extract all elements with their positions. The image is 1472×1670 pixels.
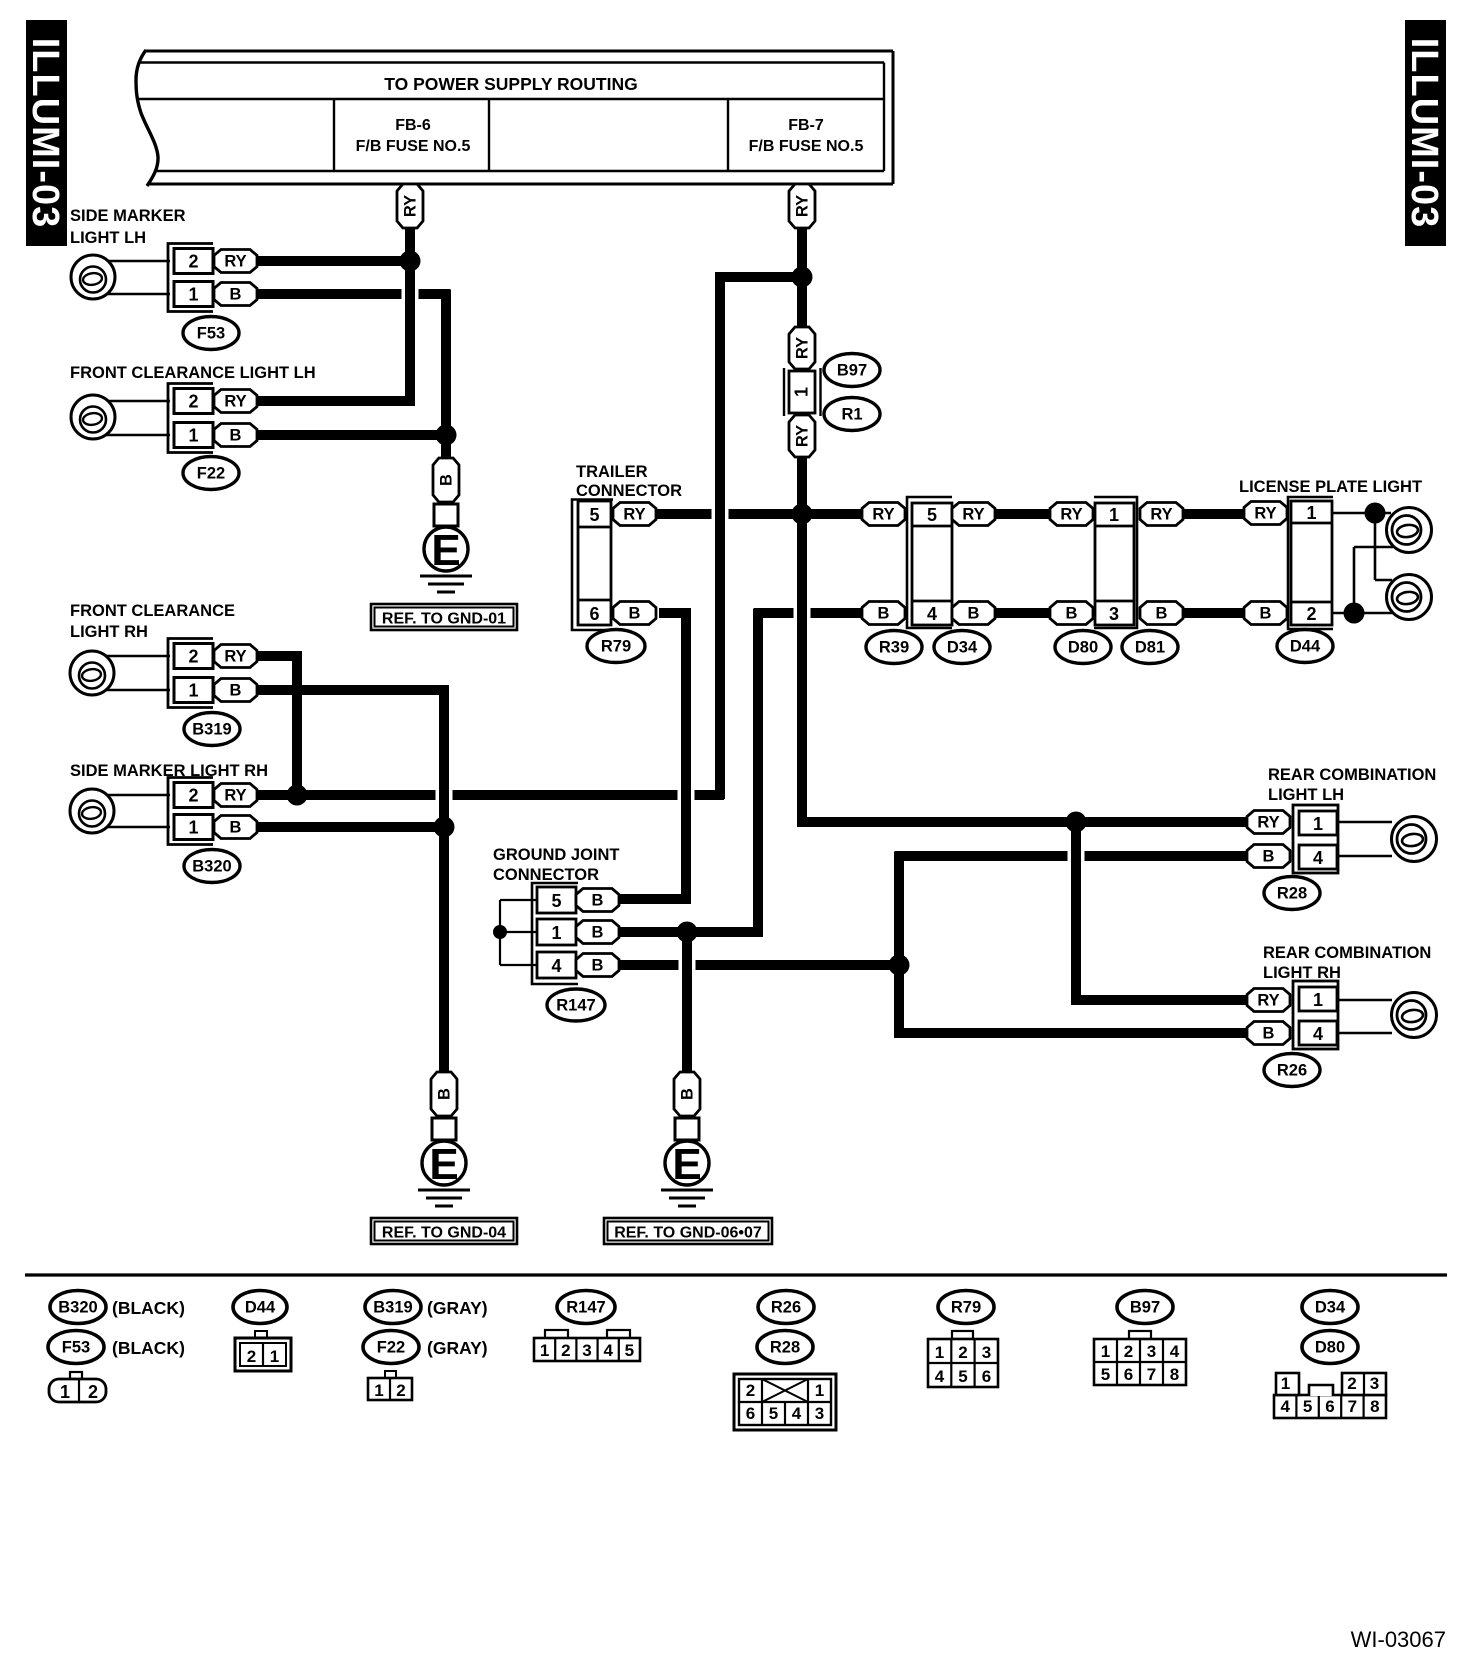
svg-text:6: 6: [1124, 1365, 1133, 1384]
svg-text:D80: D80: [1315, 1339, 1345, 1357]
svg-text:2: 2: [88, 1382, 98, 1402]
svg-text:2: 2: [1347, 1374, 1356, 1393]
svg-text:8: 8: [1170, 1365, 1179, 1384]
wire R28 RY to R26 RY vertical: [1076, 822, 1250, 1000]
svg-text:FB-7: FB-7: [788, 117, 824, 134]
wire B319 RY: [255, 656, 297, 799]
svg-text:4: 4: [792, 1404, 802, 1423]
connector R39/D34: [907, 497, 952, 628]
svg-text:2: 2: [188, 647, 198, 667]
legend D44: [233, 1291, 287, 1324]
svg-text:B: B: [679, 1088, 697, 1100]
svg-text:D34: D34: [947, 639, 978, 657]
legend F22: [363, 1331, 419, 1364]
svg-text:R147: R147: [556, 997, 595, 1015]
legend R28: [757, 1331, 813, 1364]
svg-text:FRONT CLEARANCE: FRONT CLEARANCE: [70, 602, 235, 620]
svg-text:LIGHT LH: LIGHT LH: [70, 229, 146, 247]
svg-text:B: B: [629, 605, 641, 623]
svg-text:RY: RY: [1060, 506, 1082, 524]
left banner ILLUMI-03: [26, 20, 67, 246]
svg-text:1: 1: [540, 1341, 549, 1360]
D44 internal wiring: [1332, 512, 1391, 515]
svg-text:R1: R1: [841, 406, 862, 424]
wire chain B segment (y613): [754, 608, 864, 618]
junction D44 pin2 node: [1344, 603, 1365, 624]
legend B320: [50, 1291, 106, 1324]
svg-text:1: 1: [60, 1382, 70, 1402]
svg-text:8: 8: [1370, 1397, 1379, 1416]
ellipse R147: [547, 989, 605, 1021]
svg-text:1: 1: [374, 1381, 383, 1400]
svg-text:F53: F53: [62, 1339, 90, 1357]
svg-text:4: 4: [1170, 1342, 1180, 1361]
legend D44 pin face: [255, 1331, 267, 1339]
ellipse R1: [824, 398, 880, 431]
svg-text:F22: F22: [377, 1339, 405, 1357]
svg-text:RY: RY: [224, 253, 246, 271]
svg-text:REAR COMBINATION: REAR COMBINATION: [1263, 944, 1431, 962]
legend R26/R28 pin face: [734, 1374, 836, 1430]
svg-text:RY: RY: [794, 337, 812, 359]
svg-text:B320: B320: [58, 1299, 97, 1317]
svg-text:E: E: [672, 1140, 701, 1189]
svg-text:7: 7: [1348, 1397, 1357, 1416]
legend F53/B320 pin face: [70, 1372, 82, 1379]
connector R28: [1293, 805, 1338, 873]
svg-text:REAR COMBINATION: REAR COMBINATION: [1268, 766, 1436, 784]
svg-text:F/B FUSE NO.5: F/B FUSE NO.5: [356, 138, 471, 155]
svg-text:B319: B319: [373, 1299, 412, 1317]
svg-text:1: 1: [1281, 1374, 1290, 1393]
wire crossing gaps (no connection): [402, 288, 419, 300]
legend B319: [365, 1291, 421, 1324]
wire trailer RY bus (y514): [655, 509, 864, 519]
legend D34: [1302, 1291, 1358, 1324]
svg-text:FB-6: FB-6: [395, 117, 431, 134]
svg-text:6: 6: [746, 1404, 755, 1423]
ellipse B319: [184, 713, 240, 746]
svg-text:(GRAY): (GRAY): [427, 1298, 488, 1318]
svg-text:7: 7: [1147, 1365, 1156, 1384]
svg-text:LIGHT RH: LIGHT RH: [70, 623, 148, 641]
svg-text:1: 1: [1306, 503, 1316, 523]
svg-text:2: 2: [396, 1381, 405, 1400]
svg-text:4: 4: [1280, 1397, 1290, 1416]
RY tag below FB-6: [397, 184, 423, 228]
svg-text:1: 1: [188, 818, 198, 838]
legend D34/D80 pin face: [1274, 1395, 1386, 1418]
wire B319 B + vertical to GND-04: [255, 690, 444, 1074]
svg-text:B97: B97: [1130, 1299, 1160, 1317]
connector B320: [168, 778, 213, 845]
svg-text:REF. TO GND-01: REF. TO GND-01: [382, 611, 506, 628]
legend R147: [557, 1291, 615, 1324]
svg-text:WI-03067: WI-03067: [1351, 1627, 1446, 1652]
svg-text:GROUND JOINT: GROUND JOINT: [493, 846, 620, 864]
svg-text:3: 3: [582, 1341, 591, 1360]
svg-text:R28: R28: [770, 1339, 800, 1357]
svg-text:CONNECTOR: CONNECTOR: [576, 482, 682, 500]
bulb R26: [1392, 993, 1437, 1038]
svg-text:5: 5: [927, 505, 937, 525]
svg-text:3: 3: [815, 1404, 824, 1423]
RY tag below FB-7: [789, 184, 815, 228]
svg-text:B: B: [592, 957, 604, 975]
junction R28 RY / R26 RY feed: [1066, 812, 1087, 833]
junction FB-7 feed / trunk: [792, 267, 813, 288]
svg-text:R28: R28: [1277, 885, 1307, 903]
legend F53: [48, 1331, 104, 1364]
svg-text:R147: R147: [566, 1299, 605, 1317]
right banner ILLUMI-03: [1405, 20, 1446, 246]
svg-text:F53: F53: [197, 325, 225, 343]
bulb B319: [104, 655, 170, 658]
svg-text:F/B FUSE NO.5: F/B FUSE NO.5: [749, 138, 864, 155]
power supply routing box: [136, 50, 158, 186]
svg-text:2: 2: [188, 786, 198, 806]
svg-text:3: 3: [1370, 1374, 1379, 1393]
junction B319 RY / B320 RY: [287, 785, 308, 806]
junction F22 B / GND-01 drop: [436, 425, 457, 446]
svg-text:B: B: [230, 682, 242, 700]
svg-text:2: 2: [958, 1343, 967, 1362]
ellipse D34: [934, 631, 990, 664]
legend R147 pin face: [545, 1330, 568, 1339]
R147 internal bus: [500, 899, 537, 901]
svg-text:1: 1: [1101, 1342, 1110, 1361]
wire R28 B / R26 B vertical: [899, 852, 1250, 1034]
svg-text:RY: RY: [794, 425, 812, 447]
svg-text:R26: R26: [771, 1299, 801, 1317]
svg-text:5: 5: [625, 1341, 634, 1360]
svg-text:4: 4: [1313, 1024, 1323, 1044]
svg-text:D44: D44: [1290, 638, 1321, 656]
wire FB-6 RY drop + F22 RY: [255, 224, 410, 401]
ellipse D80: [1055, 631, 1111, 664]
svg-text:LIGHT RH: LIGHT RH: [1263, 964, 1341, 982]
svg-text:1: 1: [1313, 814, 1323, 834]
legend B97: [1117, 1291, 1173, 1324]
ref box GND-04: [371, 1218, 517, 1244]
svg-text:R79: R79: [601, 638, 631, 656]
connector B97/R1: [789, 327, 815, 369]
svg-text:RY: RY: [224, 787, 246, 805]
legend D80: [1302, 1331, 1358, 1364]
svg-text:2: 2: [746, 1381, 755, 1400]
svg-text:RY: RY: [224, 393, 246, 411]
svg-text:ILLUMI-03: ILLUMI-03: [1403, 38, 1445, 229]
svg-text:TRAILER: TRAILER: [576, 463, 648, 481]
svg-text:B: B: [1066, 605, 1078, 623]
connector D44: [1288, 497, 1333, 629]
svg-text:D44: D44: [245, 1299, 276, 1317]
svg-text:5: 5: [1303, 1397, 1312, 1416]
svg-text:RY: RY: [1257, 992, 1279, 1010]
svg-text:B: B: [1156, 605, 1168, 623]
svg-text:1: 1: [815, 1381, 824, 1400]
svg-text:1: 1: [188, 285, 198, 305]
wire F53 RY: [255, 256, 414, 266]
svg-text:3: 3: [1147, 1342, 1156, 1361]
svg-text:B: B: [968, 605, 980, 623]
wire chain B segments: [993, 608, 1052, 618]
svg-text:FRONT CLEARANCE LIGHT LH: FRONT CLEARANCE LIGHT LH: [70, 364, 316, 382]
ground GND-01: [433, 458, 459, 502]
svg-text:B: B: [592, 924, 604, 942]
connector R147: [532, 883, 578, 984]
svg-text:RY: RY: [962, 506, 984, 524]
ellipse R26: [1264, 1054, 1320, 1087]
junction D44 pin1 node: [1365, 503, 1386, 524]
svg-text:2: 2: [247, 1347, 256, 1366]
junction R147 pin1 / GND-06-07 drop: [677, 922, 698, 943]
svg-text:1: 1: [551, 923, 561, 943]
svg-text:5: 5: [958, 1367, 967, 1386]
svg-text:RY: RY: [1257, 814, 1279, 832]
bulb license bottom: [1387, 575, 1432, 620]
wire chain RY segments: [993, 509, 1052, 519]
svg-text:RY: RY: [872, 506, 894, 524]
svg-text:2: 2: [188, 252, 198, 272]
bulb R28: [1392, 817, 1437, 862]
svg-text:5: 5: [589, 505, 599, 525]
svg-text:(BLACK): (BLACK): [112, 1298, 185, 1318]
svg-text:RY: RY: [1254, 505, 1276, 523]
svg-text:E: E: [431, 526, 460, 575]
svg-text:REF. TO GND-04: REF. TO GND-04: [382, 1225, 506, 1242]
svg-text:1: 1: [188, 426, 198, 446]
svg-text:B: B: [1263, 848, 1275, 866]
bulb F53: [104, 260, 170, 263]
ellipse F53: [183, 317, 239, 350]
svg-text:ILLUMI-03: ILLUMI-03: [24, 38, 66, 229]
ellipse F22: [183, 457, 239, 490]
svg-text:1: 1: [1109, 505, 1119, 525]
svg-text:B: B: [230, 286, 242, 304]
wire B320 B: [255, 822, 448, 832]
svg-text:4: 4: [603, 1341, 613, 1360]
wire R79 pin6 B down to R147 pin5: [618, 613, 686, 899]
svg-text:F22: F22: [197, 465, 225, 483]
svg-text:E: E: [429, 1140, 458, 1189]
svg-text:TO POWER SUPPLY ROUTING: TO POWER SUPPLY ROUTING: [384, 74, 637, 94]
bulb license top: [1387, 508, 1432, 553]
svg-text:B319: B319: [192, 721, 231, 739]
ref box GND-01: [371, 604, 517, 630]
ground GND-04: [431, 1072, 457, 1116]
svg-text:1: 1: [1313, 990, 1323, 1010]
svg-text:(GRAY): (GRAY): [427, 1338, 488, 1358]
svg-text:6: 6: [589, 604, 599, 624]
wire FB-7 RY drop through B97 down to R28 RY: [797, 224, 807, 328]
ellipse R28: [1264, 877, 1320, 910]
connector D80/D81: [1094, 497, 1137, 628]
svg-text:4: 4: [935, 1367, 945, 1386]
svg-text:2: 2: [1124, 1342, 1133, 1361]
svg-text:D34: D34: [1315, 1299, 1346, 1317]
legend F22/B319 pin face: [385, 1371, 396, 1379]
connector B319: [168, 639, 213, 708]
connector R79: [572, 500, 613, 631]
svg-text:4: 4: [1313, 848, 1323, 868]
svg-text:6: 6: [1325, 1397, 1334, 1416]
connector F22: [168, 384, 213, 453]
svg-text:D80: D80: [1068, 639, 1098, 657]
svg-text:B: B: [230, 819, 242, 837]
ellipse B320: [184, 850, 240, 883]
svg-text:B: B: [438, 474, 456, 486]
svg-text:(BLACK): (BLACK): [112, 1338, 185, 1358]
svg-text:3: 3: [1109, 604, 1119, 624]
svg-text:2: 2: [188, 392, 198, 412]
svg-text:RY: RY: [224, 648, 246, 666]
svg-text:2: 2: [1306, 604, 1316, 624]
svg-text:D81: D81: [1135, 639, 1165, 657]
wire R147 pin1 down to GND-06.07: [682, 932, 692, 1074]
svg-text:SIDE MARKER: SIDE MARKER: [70, 207, 186, 225]
svg-text:R79: R79: [951, 1299, 981, 1317]
svg-text:B97: B97: [837, 362, 867, 380]
ref box GND-06-07: [604, 1218, 772, 1244]
svg-text:6: 6: [982, 1367, 991, 1386]
legend R79: [938, 1291, 994, 1324]
ellipse D44: [1277, 630, 1333, 663]
svg-text:LIGHT LH: LIGHT LH: [1268, 786, 1344, 804]
svg-text:3: 3: [982, 1343, 991, 1362]
svg-text:B: B: [592, 892, 604, 910]
connector R26: [1293, 981, 1338, 1049]
ellipse D81: [1122, 631, 1178, 664]
svg-text:5: 5: [551, 891, 561, 911]
ground GND-06-07: [674, 1072, 700, 1116]
legend B97 pin face: [1129, 1331, 1151, 1339]
svg-text:LICENSE PLATE LIGHT: LICENSE PLATE LIGHT: [1239, 478, 1422, 496]
wire F53 B to GND-01 drop (horizontal): [255, 289, 450, 299]
svg-text:R26: R26: [1277, 1062, 1307, 1080]
svg-text:B320: B320: [192, 858, 231, 876]
legend R26: [758, 1291, 814, 1324]
svg-text:B: B: [878, 605, 890, 623]
ellipse R39: [866, 631, 922, 664]
junction R147 pin4 / rear B trunk: [889, 955, 910, 976]
wire R28 B (y856): [895, 851, 1250, 861]
wire R147 pin4 B (y965): [620, 960, 899, 970]
svg-text:4: 4: [927, 604, 937, 624]
svg-text:5: 5: [769, 1404, 778, 1423]
junction F53 RY / FB-6 feed: [400, 251, 421, 272]
svg-text:4: 4: [551, 956, 561, 976]
svg-text:1: 1: [792, 387, 812, 397]
svg-text:CONNECTOR: CONNECTOR: [493, 866, 599, 884]
svg-text:1: 1: [270, 1347, 279, 1366]
svg-text:REF. TO GND-06•07: REF. TO GND-06•07: [614, 1225, 762, 1242]
bulb B320: [104, 794, 170, 797]
ellipse R79: [587, 630, 645, 663]
svg-text:RY: RY: [794, 195, 812, 217]
ellipse B97: [824, 354, 880, 387]
legend separator: [25, 1273, 1447, 1276]
legend R79 pin face: [952, 1331, 973, 1339]
wire trunk vertical x720 to FB-7 junction: [720, 277, 806, 799]
svg-text:1: 1: [935, 1343, 944, 1362]
wire chain B down to R147 pin1: [620, 609, 758, 933]
svg-text:1: 1: [188, 681, 198, 701]
svg-text:R39: R39: [879, 639, 909, 657]
svg-text:B: B: [1263, 1025, 1275, 1043]
wire B320/B319 RY trunk (horizontal y795): [255, 790, 724, 800]
wire F53/F22 B vertical to GND-01: [441, 290, 451, 461]
connector F53: [168, 244, 213, 312]
svg-text:RY: RY: [1150, 506, 1172, 524]
svg-text:B: B: [436, 1088, 454, 1100]
svg-text:B: B: [1260, 605, 1272, 623]
junction B319 B / B320 B: [434, 817, 455, 838]
svg-text:2: 2: [561, 1341, 570, 1360]
bulb F22: [104, 400, 170, 403]
svg-text:5: 5: [1101, 1365, 1110, 1384]
svg-text:B: B: [230, 427, 242, 445]
svg-text:RY: RY: [623, 506, 645, 524]
svg-text:RY: RY: [402, 195, 420, 217]
junction trailer RY bus: [792, 504, 813, 525]
